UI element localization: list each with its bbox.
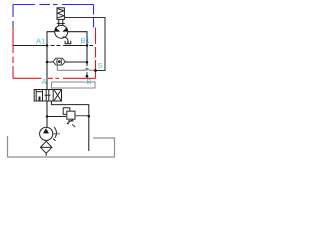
valve solenoid marks [36, 90, 42, 102]
suction line S (gray) with hop over B line [57, 65, 95, 70]
wire: pump suction [45, 139, 47, 142]
node port S [94, 69, 97, 72]
brake spring box [57, 8, 64, 20]
wire: motor left port to A column [47, 32, 55, 90]
pump drain tick [53, 133, 60, 135]
pump flow triangle [43, 128, 49, 133]
hydraulic motor M1 [55, 25, 68, 38]
wire: A1-B1 manifold line [13, 45, 93, 47]
brake pedestal [57, 19, 65, 25]
directional valve V1 body [34, 90, 61, 102]
wire: coupling branch from A column [47, 61, 53, 63]
drain mini tank [65, 41, 71, 44]
red dashed enclosure (lower boundary) [13, 28, 96, 79]
node tank line junction [88, 115, 91, 118]
wire: B column dashed pilot to port B [86, 63, 88, 76]
node B column junction [86, 61, 89, 64]
node pilot branch [46, 115, 49, 118]
wire: relief outlet to tank line [74, 115, 88, 117]
wire: motor right port to B column [68, 32, 87, 63]
valve middle position (through flow) [45, 90, 51, 101]
blue dash-dot enclosure (upper boundary) [13, 5, 94, 28]
pump P1 [40, 127, 53, 140]
wire: valve T drain to tank [52, 101, 89, 151]
pump rotation arc [54, 127, 56, 137]
relief valve RV1 pilot square [63, 108, 70, 115]
svg-text:A1: A1 [36, 37, 45, 46]
wire: coupling to B column [65, 61, 87, 63]
motor case drain [63, 37, 68, 42]
gray manifold rectangle [52, 82, 96, 88]
relief valve RV1 body [67, 111, 75, 119]
motor flow triangle left [55, 27, 60, 31]
wire: pilot line to relief valve [47, 116, 66, 118]
filter F1 [41, 141, 52, 153]
motor flow triangle right [62, 27, 67, 31]
node B1 junction [86, 44, 89, 47]
wire: filter to tank [45, 153, 47, 156]
node A1 junction [46, 44, 49, 47]
node coupling junction [46, 61, 49, 64]
valve right position (blocked X) [54, 90, 61, 101]
svg-text:S: S [98, 61, 103, 70]
relief valve arrow and spring [68, 120, 76, 128]
brake release line to S [64, 18, 105, 71]
svg-text:B1: B1 [81, 36, 90, 45]
wire: valve P to pump [46, 101, 48, 127]
quick coupling [53, 58, 65, 65]
node port B [86, 75, 89, 78]
tank outline [8, 136, 115, 157]
svg-text:B: B [87, 77, 92, 86]
